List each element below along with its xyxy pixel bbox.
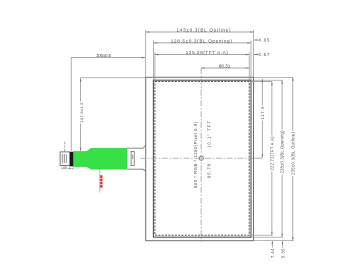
FPC white tail outline: [127, 145, 146, 171]
dimension 235±0.3 BL Outline vertical: [292, 77, 294, 240]
svg-text:117.6: 117.6: [260, 106, 265, 120]
BL opening rectangle: [153, 80, 251, 237]
BL outline rectangle: [146, 77, 254, 240]
svg-text:143±0.3(BL Outline): 143±0.3(BL Outline): [177, 28, 231, 33]
green FPC body: [73, 148, 127, 169]
center mark: [199, 156, 203, 160]
outline top extension to left: [81, 78, 146, 151]
svg-text:800 * RGB * 1280(Pixel 0.9): 800 * RGB * 1280(Pixel 0.9): [193, 121, 198, 188]
svg-text:6.67: 6.67: [258, 52, 270, 57]
outline top extension right: [254, 76, 294, 78]
TFT A.A dashed rectangle: [155, 82, 249, 236]
extension line BL outline left: [145, 30, 147, 78]
FPC label box: [131, 151, 134, 165]
extension line BL opening left: [152, 41, 154, 80]
hotbar red label: [100, 175, 102, 187]
svg-text:228±0.3(BL Opening): 228±0.3(BL Opening): [280, 130, 285, 174]
svg-text:222.72(TFT A.A): 222.72(TFT A.A): [270, 136, 275, 171]
dimension 222.72 TFT A.A vertical: [271, 82, 273, 236]
extension line TFT left: [154, 52, 156, 81]
svg-text:1.05: 1.05: [61, 166, 67, 170]
dimension 125.28 TFT A.A: [155, 54, 249, 56]
extension line BL opening right: [250, 41, 252, 80]
dimension 107.6±1.5 vertical text: [79, 102, 84, 124]
dim 1.05 leader: [68, 167, 74, 170]
horizontal FPC center line: [140, 157, 262, 159]
dim 7.44 stub: [271, 241, 273, 248]
dim 6.67 leader: [254, 53, 258, 55]
dimension 143±0.3 BL Outline: [146, 31, 254, 33]
outline bottom extension right: [254, 240, 294, 242]
panel size rotated text: [207, 121, 212, 148]
hotbar leader line: [99, 169, 101, 192]
svg-text:128.5±0.3(BL Opening): 128.5±0.3(BL Opening): [171, 39, 232, 44]
opening bottom extension right: [251, 236, 283, 238]
opening top extension right: [251, 79, 283, 81]
svg-text:68.31: 68.31: [219, 64, 231, 69]
svg-text:5.35: 5.35: [280, 248, 285, 258]
svg-text:4.05: 4.05: [258, 37, 270, 42]
TFT top extension right: [249, 81, 272, 83]
FPC label text: [131, 155, 134, 159]
vertical center line: [200, 68, 202, 242]
svg-text:100±0.5: 100±0.5: [96, 53, 112, 58]
hotbar black pad: [70, 152, 73, 166]
panel 95.78 rotated text: [207, 163, 212, 178]
connector pin text: [62, 154, 67, 164]
svg-text:125.28(TFT A.A): 125.28(TFT A.A): [186, 50, 228, 55]
dimension 100±0.5 leader: [71, 58, 145, 152]
dim 5.35 stub: [281, 241, 283, 248]
dimension 128.5±0.3 BL Opening: [153, 42, 251, 44]
svg-text:10.1" TFT: 10.1" TFT: [207, 121, 212, 148]
dimension 68.31: [201, 67, 249, 69]
extension line TFT right: [248, 52, 250, 81]
arrowheads 107.6 dim: [80, 78, 82, 82]
dim 4.05 leader: [254, 39, 258, 41]
panel resolution rotated text: [193, 121, 198, 188]
dimension 117.6 vertical: [254, 79, 263, 158]
connector body: [60, 152, 70, 166]
TFT bottom extension right: [249, 234, 273, 236]
connector center dashed line: [64, 142, 66, 152]
extension line BL outline right: [253, 30, 255, 78]
svg-text:95.78: 95.78: [207, 163, 212, 178]
svg-text:235±0.3(BL Outline): 235±0.3(BL Outline): [291, 131, 296, 175]
dimension 228±0.3 BL Opening vertical: [281, 80, 283, 237]
svg-text:107.6±1.5: 107.6±1.5: [79, 102, 84, 123]
svg-text:7.44: 7.44: [270, 248, 275, 258]
